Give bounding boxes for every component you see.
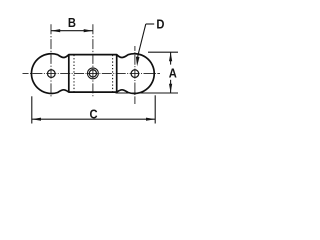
svg-text:A: A (169, 66, 177, 81)
svg-text:C: C (89, 107, 97, 122)
svg-text:B: B (68, 15, 76, 30)
svg-text:D: D (156, 17, 164, 32)
